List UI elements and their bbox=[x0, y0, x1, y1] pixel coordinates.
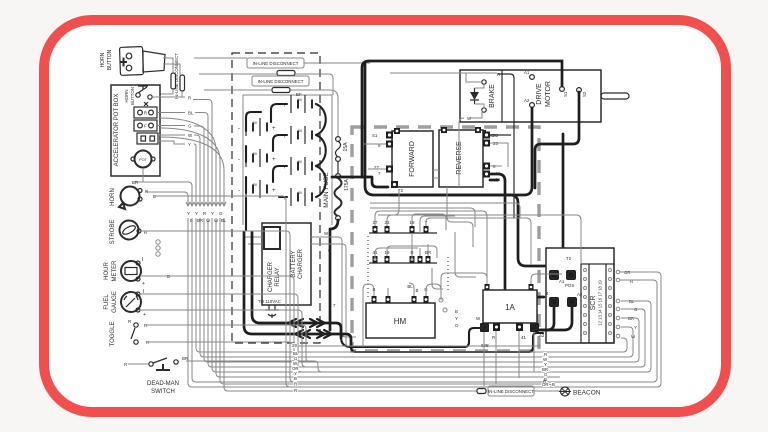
svg-text:Y: Y bbox=[455, 316, 458, 321]
wire row2 stubs bbox=[412, 244, 428, 256]
svg-text:FUEL: FUEL bbox=[104, 294, 110, 310]
wire charger to fuse bbox=[311, 237, 358, 347]
svg-text:S2: S2 bbox=[493, 133, 499, 138]
inline connector beads on strobe wire bbox=[156, 240, 160, 256]
svg-text:POT: POT bbox=[139, 158, 147, 162]
svg-text:-: - bbox=[238, 157, 240, 163]
svg-text:ACCELERATOR POT BOX: ACCELERATOR POT BOX bbox=[114, 94, 120, 167]
bundle labels right bbox=[542, 352, 555, 387]
pot box connector block 3 bbox=[137, 133, 158, 144]
svg-text:HORN: HORN bbox=[100, 52, 106, 67]
wire bundle to SCR OR bbox=[188, 218, 661, 387]
S2 terminal post below motor bbox=[478, 130, 495, 138]
heavy battery cable with disconnect chevrons lower bbox=[244, 232, 543, 352]
svg-text:CHARGER: CHARGER bbox=[268, 261, 274, 292]
charger loop wire bbox=[243, 95, 332, 225]
wire horn leads to disconnects bbox=[194, 58, 370, 136]
wire row1 27 to 1A bbox=[375, 211, 487, 284]
svg-text:41: 41 bbox=[521, 335, 526, 340]
wire fuel gauge + drop bbox=[140, 310, 637, 367]
svg-text:R: R bbox=[492, 335, 495, 340]
in-line disconnect label 2 bbox=[252, 76, 309, 93]
fuel gauge bbox=[104, 289, 146, 318]
wire bundle to SCR W bbox=[212, 218, 651, 372]
charger relay + battery charger box bbox=[262, 223, 311, 305]
wire BR from pot bbox=[135, 176, 143, 182]
svg-text:+: + bbox=[272, 157, 276, 163]
1A terminal posts top bbox=[485, 284, 534, 290]
heavy cable S2 down-left bbox=[535, 92, 579, 188]
svg-text:BR: BR bbox=[182, 356, 188, 361]
wire control harness run 2 bbox=[370, 208, 475, 227]
svg-text:R: R bbox=[203, 211, 206, 216]
svg-text:POS: POS bbox=[565, 283, 574, 288]
svg-text:G: G bbox=[219, 211, 223, 216]
wire fuel gauge I drop bbox=[140, 294, 643, 372]
SCR strip screws left bbox=[584, 269, 587, 335]
wire bundle to disconnect bbox=[224, 218, 477, 391]
svg-text:METER: METER bbox=[112, 260, 118, 282]
wire bundle to SCR G bbox=[200, 218, 633, 357]
svg-text:1A: 1A bbox=[505, 303, 515, 312]
svg-text:R: R bbox=[144, 111, 147, 116]
svg-text:S1: S1 bbox=[372, 133, 378, 138]
wire row1 18 stub bbox=[412, 214, 446, 230]
svg-text:-: - bbox=[238, 188, 240, 194]
reverse contactor bbox=[439, 130, 483, 187]
reverse top post right bbox=[475, 127, 481, 133]
controller compartment dashed box bbox=[352, 127, 539, 351]
svg-text:+: + bbox=[143, 312, 146, 318]
bundle labels left bbox=[292, 343, 299, 393]
pot box connector block 1 bbox=[134, 107, 157, 118]
wire S2 post link bbox=[486, 134, 511, 136]
heavy cable bus to A1 bbox=[365, 64, 545, 266]
svg-text:EF: EF bbox=[296, 92, 302, 97]
forward terminal posts bbox=[372, 132, 404, 194]
battery B5 8V bbox=[238, 118, 276, 136]
battery B6 8V bbox=[238, 149, 276, 167]
heavy cable T2 drop to POS bbox=[563, 134, 570, 272]
wire brake W run bbox=[459, 118, 464, 187]
svg-text:+: + bbox=[272, 188, 276, 194]
svg-text:BR: BR bbox=[132, 180, 138, 185]
heavy cable SCR 4 down bbox=[541, 307, 554, 330]
svg-text:R: R bbox=[294, 382, 297, 387]
wire bundle row 9 bbox=[220, 218, 552, 388]
svg-text:SWITCH: SWITCH bbox=[151, 389, 175, 395]
wire row2 to HM bbox=[432, 268, 443, 289]
svg-text:F: F bbox=[144, 124, 147, 129]
HM terminal posts bbox=[372, 284, 429, 303]
svg-text:IN-LINE DISCONNECT: IN-LINE DISCONNECT bbox=[174, 53, 179, 99]
svg-text:A1: A1 bbox=[495, 177, 501, 182]
svg-text:Y: Y bbox=[211, 211, 214, 216]
svg-text:+: + bbox=[272, 126, 276, 132]
hour meter bbox=[104, 257, 170, 287]
svg-text:IN-LINE DISCONNECT: IN-LINE DISCONNECT bbox=[253, 61, 299, 66]
heavy cable reverse A1 to SCR A2 bbox=[490, 174, 544, 297]
svg-text:B: B bbox=[416, 288, 419, 293]
svg-text:BATTERY: BATTERY bbox=[291, 250, 297, 277]
wire charger left bbox=[243, 237, 262, 244]
svg-text:BUTTON: BUTTON bbox=[107, 49, 113, 70]
toggle switch bbox=[110, 319, 149, 346]
wire bundle to SCR BL bbox=[196, 218, 627, 352]
svg-text:IN-LINE DISCONNECT: IN-LINE DISCONNECT bbox=[258, 79, 304, 84]
accelerator pot box bbox=[111, 85, 160, 176]
wire row2 41 loop bbox=[375, 248, 418, 261]
battery series jumpers bbox=[271, 104, 287, 122]
wire rows link bbox=[412, 216, 455, 261]
svg-text:Y: Y bbox=[188, 142, 191, 147]
horn button switch in pot box bbox=[124, 86, 152, 105]
SCR assembly outer box bbox=[546, 248, 614, 343]
forward top post bbox=[394, 128, 400, 134]
svg-text:STROBE: STROBE bbox=[110, 220, 116, 245]
heavy cable A2 motor down bbox=[390, 108, 532, 195]
svg-text:R: R bbox=[128, 319, 131, 324]
svg-text:O: O bbox=[455, 323, 459, 328]
svg-text:A2: A2 bbox=[539, 333, 545, 338]
svg-text:Y: Y bbox=[634, 325, 637, 330]
horn button connector bbox=[100, 47, 165, 76]
wire aux to 1A bbox=[455, 232, 476, 277]
svg-text:+: + bbox=[142, 281, 145, 287]
wire bundle to SCR Y bbox=[208, 218, 645, 367]
HM module bbox=[366, 303, 435, 338]
svg-text:CHARGER: CHARGER bbox=[298, 248, 304, 279]
wire contactor T2 hook bbox=[378, 190, 399, 215]
wire bundle row 8 bbox=[216, 218, 560, 377]
battery B7 8V bbox=[238, 180, 276, 198]
svg-text:R: R bbox=[294, 388, 297, 393]
svg-text:Y: Y bbox=[187, 211, 190, 216]
svg-text:BRAKE: BRAKE bbox=[489, 84, 496, 108]
wire horn B to beacon feed bbox=[155, 196, 544, 387]
svg-text:A2: A2 bbox=[577, 292, 583, 297]
svg-text:MAIN FUSE: MAIN FUSE bbox=[323, 172, 330, 208]
drive motor bbox=[524, 70, 587, 107]
svg-text:29: 29 bbox=[292, 343, 297, 348]
horn bbox=[110, 187, 156, 210]
SCR terminal strip bbox=[581, 264, 614, 343]
svg-text:Y: Y bbox=[195, 211, 198, 216]
svg-text:BEACON: BEACON bbox=[573, 390, 601, 397]
svg-text:S1: S1 bbox=[563, 91, 568, 97]
svg-text:FORWARD: FORWARD bbox=[409, 141, 416, 177]
wire strobe drop bbox=[141, 231, 649, 382]
wire row1 23 to SCR strip bbox=[387, 215, 581, 264]
svg-text:B: B bbox=[294, 376, 297, 381]
wire pot box outputs bbox=[152, 97, 185, 144]
wire hour meter drop bbox=[140, 276, 560, 377]
battery B1 8V bbox=[283, 92, 320, 113]
wire brake R run bbox=[390, 72, 466, 74]
potentiometer POT bbox=[131, 151, 155, 177]
svg-text:HOUR: HOUR bbox=[104, 262, 110, 280]
svg-text:S2: S2 bbox=[582, 91, 587, 97]
dotted junction line 2 bbox=[447, 257, 449, 293]
svg-text:R: R bbox=[543, 379, 546, 384]
terminal row 1 bus bbox=[369, 220, 437, 233]
1A module bbox=[483, 290, 537, 323]
pot box connector block 2 bbox=[134, 120, 157, 131]
svg-text:GAUGE: GAUGE bbox=[112, 291, 118, 313]
svg-text:B: B bbox=[455, 309, 458, 314]
svg-text:TOGGLE: TOGGLE bbox=[110, 322, 116, 347]
svg-text:I: I bbox=[142, 257, 143, 263]
wire control harness run 1 bbox=[370, 203, 520, 218]
wire stubs contactor coils bbox=[364, 143, 508, 178]
crossing mark bbox=[144, 102, 148, 106]
wire row2 19 loop bbox=[387, 246, 437, 258]
wire bundle to SCR BR bbox=[204, 218, 639, 362]
svg-text:A1: A1 bbox=[495, 171, 501, 176]
beacon bbox=[534, 379, 601, 397]
reverse top post left bbox=[441, 127, 447, 133]
svg-text:T2: T2 bbox=[566, 256, 572, 261]
svg-text:TO 110VAC: TO 110VAC bbox=[258, 299, 281, 304]
svg-text:HM: HM bbox=[394, 317, 407, 326]
svg-text:DRIVE: DRIVE bbox=[536, 83, 543, 105]
svg-text:BUTTON: BUTTON bbox=[130, 87, 135, 105]
wire horn connector to fuses bbox=[163, 58, 180, 75]
harness vertical bundle arrows bbox=[143, 100, 227, 224]
svg-text:MOTOR: MOTOR bbox=[545, 81, 552, 107]
svg-text:SCR: SCR bbox=[590, 296, 597, 311]
reverse terminal posts bbox=[483, 132, 501, 183]
strobe bbox=[110, 220, 147, 245]
battery compartment dashed box bbox=[232, 53, 320, 343]
1A terminal posts bottom bbox=[476, 316, 545, 348]
wire hooks onto HM posts bbox=[363, 283, 441, 347]
in-line disconnect fuses (horn lead) bbox=[171, 53, 185, 99]
svg-text:12 13 14 15 16 17 18 19: 12 13 14 15 16 17 18 19 bbox=[598, 280, 603, 326]
wire bundle to SCR R bbox=[192, 218, 657, 382]
terminal row 2 bus bbox=[369, 250, 437, 263]
svg-text:A1: A1 bbox=[524, 70, 530, 75]
heavy cable battery to S1 bbox=[362, 61, 562, 177]
dead-man switch bbox=[124, 356, 188, 395]
heavy cable main fuse down bbox=[330, 220, 338, 330]
in-line disconnect label 1 bbox=[247, 58, 304, 76]
wire reverse aux drop bbox=[447, 187, 473, 247]
SCR strip screws right bbox=[609, 269, 612, 335]
svg-text:175A: 175A bbox=[344, 179, 350, 191]
heavy cable SCR A2 to 1A bbox=[539, 307, 572, 330]
svg-text:R: R bbox=[188, 96, 191, 101]
svg-text:BL: BL bbox=[407, 284, 413, 289]
svg-text:15A: 15A bbox=[343, 142, 349, 152]
svg-text:-: - bbox=[238, 126, 240, 132]
brake compartment bbox=[466, 70, 502, 122]
svg-text:IN-LINE DISCONNECT: IN-LINE DISCONNECT bbox=[488, 389, 534, 394]
SCR power posts A1 POS 4 A2 bbox=[546, 270, 583, 307]
dotted junction line bbox=[367, 236, 369, 300]
wire fuses to pot box horn switch bbox=[140, 89, 182, 97]
wire toggle drop 1 bbox=[146, 325, 631, 362]
svg-text:G: G bbox=[188, 124, 192, 129]
drive motor + brake outer box bbox=[460, 70, 601, 122]
battery B4 8V bbox=[283, 188, 320, 206]
svg-text:B: B bbox=[328, 248, 331, 253]
wire brake R drop bbox=[498, 74, 514, 218]
battery B2 8V bbox=[283, 126, 320, 144]
wire row1 Y loop bbox=[426, 218, 531, 265]
inline connector beads right of HM bbox=[439, 298, 443, 302]
svg-text:HORN: HORN bbox=[124, 90, 129, 103]
svg-text:B: B bbox=[552, 382, 555, 387]
in-line disconnect (beacon lead) bbox=[477, 386, 534, 396]
svg-text:DEAD-MAN: DEAD-MAN bbox=[147, 381, 179, 387]
svg-text:R: R bbox=[124, 362, 127, 367]
SCR right wire terminals bbox=[616, 270, 638, 339]
main fuse wire and fuses bbox=[335, 137, 342, 221]
svg-text:HORN: HORN bbox=[110, 188, 116, 206]
heavy cable T2 stub bbox=[332, 177, 388, 187]
svg-text:BL: BL bbox=[188, 111, 194, 116]
wire labels left of 1A bbox=[455, 309, 459, 328]
heavy battery cable with disconnect chevrons upper bbox=[252, 232, 484, 347]
wire dead-man drop bbox=[128, 361, 560, 372]
forward contactor bbox=[392, 131, 433, 187]
motor shaft bbox=[601, 93, 629, 99]
wire 1A drops bbox=[484, 331, 534, 386]
TO 110VAC plug bbox=[258, 299, 281, 318]
wire 1A top left bbox=[441, 273, 562, 300]
wire toggle drop 2 bbox=[148, 342, 540, 346]
svg-text:RELAY: RELAY bbox=[275, 267, 281, 286]
battery B3 8V bbox=[283, 157, 320, 175]
svg-text:A2: A2 bbox=[524, 98, 530, 103]
